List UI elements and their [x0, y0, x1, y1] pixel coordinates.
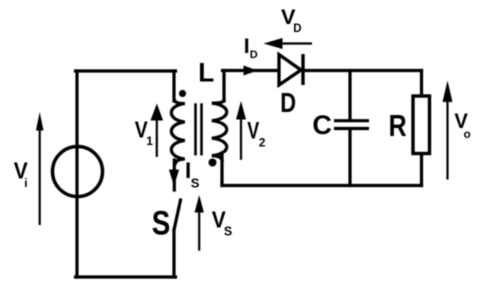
polarity dot secondary	[209, 159, 217, 167]
wire top of input loop	[76, 69, 176, 72]
label Is	[185, 158, 200, 190]
svg-text:C: C	[312, 110, 332, 140]
arrow Vs	[195, 195, 204, 251]
voltage source Vi circle	[53, 147, 103, 197]
svg-text:S: S	[224, 224, 232, 238]
svg-text:L: L	[198, 58, 214, 88]
wire bottom of input loop	[76, 275, 176, 278]
switch S blade	[174, 200, 181, 230]
arrow Is (on wire, pointing down)	[169, 170, 179, 187]
polarity dot primary	[179, 90, 186, 97]
resistor R body	[413, 96, 430, 154]
arrow Vi	[36, 112, 44, 225]
transformer secondary winding	[212, 99, 227, 162]
svg-text:D: D	[293, 23, 301, 35]
transformer primary winding	[171, 99, 184, 165]
transformer core lines	[194, 103, 197, 155]
label Vs	[212, 207, 232, 239]
svg-text:i: i	[24, 176, 27, 190]
arrow ID (on wire, pointing right)	[244, 66, 258, 76]
diode D triangle	[279, 55, 301, 86]
label ID	[244, 35, 258, 61]
wire capacitor top lead	[348, 71, 351, 120]
arrow V2	[236, 101, 246, 160]
wire secondary bottom down	[220, 153, 223, 186]
label V1	[135, 116, 154, 148]
label VD	[281, 5, 302, 35]
wire bottom of output loop	[222, 184, 422, 187]
wire left vertical of input loop	[75, 71, 78, 277]
capacitor C plates	[334, 119, 369, 122]
svg-text:S: S	[191, 175, 200, 190]
arrow Vo	[443, 81, 453, 180]
wire from top into primary winding	[172, 71, 175, 101]
wire resistor bottom lead	[420, 155, 423, 186]
svg-text:D: D	[250, 49, 258, 61]
wire primary to switch with Is arrow	[173, 160, 176, 190]
svg-text:1: 1	[146, 134, 153, 148]
svg-text:I: I	[244, 35, 250, 58]
label V2	[247, 118, 265, 150]
wire secondary top to diode anode with ID arrow	[223, 69, 280, 72]
wire capacitor bottom lead	[348, 130, 351, 186]
arrow VD (pointing left)	[264, 38, 313, 49]
label Vo	[454, 109, 470, 141]
wire diode cathode to R branch	[303, 69, 422, 72]
svg-text:o: o	[464, 129, 471, 141]
svg-text:2: 2	[259, 135, 266, 149]
svg-text:R: R	[389, 109, 407, 143]
arrow V1	[151, 104, 164, 158]
diode D cathode bar	[301, 54, 304, 85]
label Vi	[14, 157, 29, 190]
wire resistor top lead	[420, 71, 423, 95]
wire switch bottom segment	[172, 230, 175, 277]
wire secondary top up	[222, 71, 225, 102]
svg-text:S: S	[152, 204, 171, 242]
svg-text:D: D	[280, 87, 296, 118]
